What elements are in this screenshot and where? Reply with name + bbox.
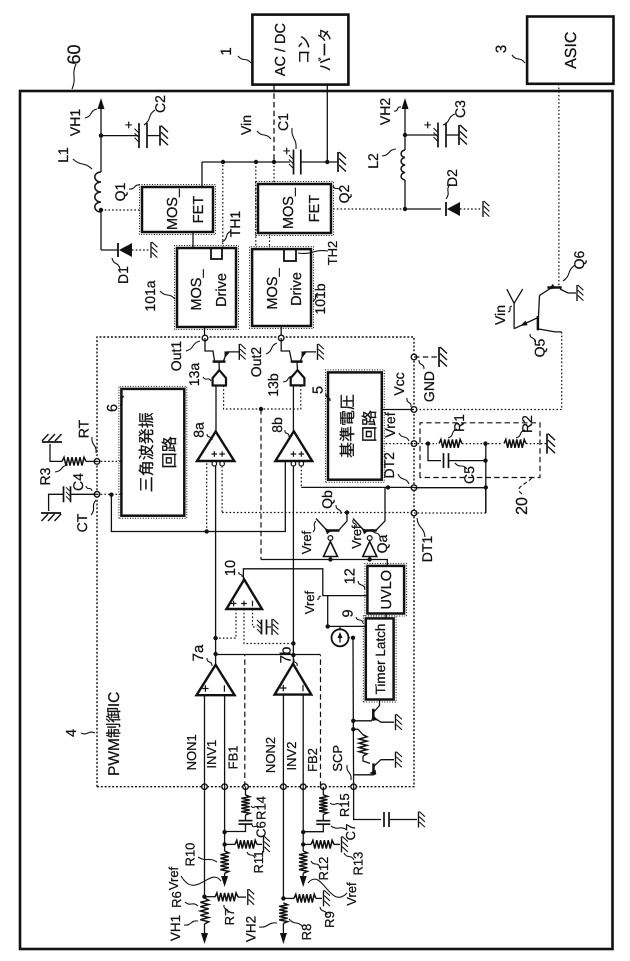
svg-text:R15: R15 [337,793,352,817]
MOSFET box Q2 [256,182,334,236]
pin Vref [411,441,417,447]
resistor R10 [220,851,228,873]
svg-text:+: + [420,121,435,129]
svg-text:13b: 13b [265,373,281,397]
wire Vref dashed distribution [260,409,262,560]
wire SCP cap to ground [389,819,417,821]
wire Q1 to driver 101a [192,232,194,248]
node INV2/C7 [301,830,305,834]
arrow to Vref (INV2 divider) [300,876,307,887]
svg-text:FET: FET [307,195,323,223]
svg-text:PWM制御IC: PWM制御IC [105,692,123,776]
node comparator input a [213,636,217,640]
svg-text:基準電圧: 基準電圧 [339,394,357,458]
pin DT2 [411,485,417,491]
wire R2 to ground (dotted) [526,443,546,445]
node Vref dash junction [259,407,263,411]
wire comparator 10 output [243,569,367,596]
ground of C2 [160,126,168,146]
svg-text:コン: コン [297,35,313,64]
svg-text:3: 3 [493,45,510,53]
ground of D1 [151,242,157,258]
node comparator input b [291,641,295,645]
svg-text:Q2: Q2 [336,184,352,203]
svg-text:Q5: Q5 [531,338,547,357]
capacitor C3 [437,123,439,148]
ground of Q6 [577,285,583,301]
wire driver 101b output to Out2 pin [280,326,282,338]
wire C2 branch [101,135,138,137]
wire ASIC control line (dotted) [558,84,560,286]
svg-text:VH1: VH1 [67,109,83,136]
wire INV2 external [302,787,304,851]
svg-text:SCP: SCP [330,745,345,772]
wire comparator input c to cap (dotted) [253,609,258,627]
arrow VH2 output terminal [402,98,409,109]
wire driver 101a output to Out1 pin [204,327,206,338]
svg-text:MOS_: MOS_ [189,269,205,311]
pin Out2 [278,335,284,341]
svg-text:CT: CT [74,513,90,532]
wire C2 to ground [147,135,160,137]
pin FB2 [321,784,327,790]
capacitor C2 [138,123,140,148]
ground of transistor B [396,752,402,768]
node SCP transistor A base [351,719,355,723]
svg-text:101b: 101b [312,283,328,314]
current source 9 circle [332,629,349,646]
svg-text:13a: 13a [186,363,202,387]
svg-text:Vin: Vin [492,305,508,325]
svg-text:Vcc: Vcc [391,372,407,395]
node SCP resistor tap [351,727,355,731]
node INV1/R11 [222,842,226,846]
driver arrow symbol 13a [213,370,226,385]
AC/DC converter box 1 [252,15,348,85]
MOS drive box 101b [250,247,314,329]
wire joining 7a/7b outputs [216,654,321,656]
svg-text:Drive: Drive [289,272,305,306]
svg-text:C6: C6 [254,821,269,838]
wire Q6 to Q5 base [539,295,540,316]
ground of SCP cap [419,812,425,828]
ASIC box 3 [527,17,613,84]
svg-text:NON2: NON2 [263,737,278,773]
transistor A of SCP latch [353,720,372,722]
wire Vin bus vertical [202,161,290,163]
svg-text:TH2: TH2 [325,241,340,266]
wire INV2 to 7b [302,695,304,787]
svg-text:MOS_: MOS_ [265,268,281,310]
main comparator 10 [226,580,262,610]
wire 13a lower lead to Vref dash node (dotted) [224,386,259,410]
svg-text:C1: C1 [275,113,291,131]
svg-text:INV2: INV2 [284,742,299,771]
resistor R11 [225,843,235,845]
ground of RT resistor [42,434,62,442]
svg-text:L2: L2 [365,153,381,169]
wire 13b to 8b output [292,385,294,431]
ground of R11 [264,836,270,852]
pin CT [94,491,100,497]
wire Q2 to driver 101b (dotted) [269,233,271,249]
wire switch node to MOSFET Q2 (dotted) [332,208,405,210]
op-amp 7b [275,664,312,695]
svg-text:回路: 回路 [161,436,179,468]
svg-text:C3: C3 [452,100,468,118]
pin DT1 [411,510,417,516]
wire Vref rail to UVLO [261,560,387,566]
svg-text:R14: R14 [254,796,269,820]
wire DT1 internal line (dotted) [222,512,414,514]
svg-text:MOS_: MOS_ [165,188,181,230]
wire cap to ground [267,626,272,628]
svg-text:VH2: VH2 [377,98,393,125]
svg-text:Timer Latch: Timer Latch [373,624,388,695]
arrow to Vref (INV1 divider) [221,876,228,887]
node NON1/R7 [202,895,206,899]
reference voltage box 5 [326,370,385,482]
pin SCP [351,784,357,790]
svg-text:INV1: INV1 [204,740,219,769]
wire CT pin into oscillator (dotted) [97,493,121,495]
wire D1 branch [101,249,118,251]
svg-text:4: 4 [64,729,80,737]
wire INV1 external [224,787,226,851]
svg-text:RT: RT [76,419,92,438]
resistor in SCP latch [353,729,363,734]
pin TH2 notch on driver 101b [284,249,296,261]
pin GND [411,354,417,360]
capacitor C6 [245,815,247,821]
node R1/R2/DT2 [483,441,487,445]
svg-text:Qb: Qb [319,490,335,509]
node NON2/R9 [281,896,285,900]
resistor R7 [205,896,216,898]
ground at GND pin [439,347,447,367]
svg-text:D2: D2 [444,169,460,187]
pin INV2 [300,784,306,790]
resistor R12 [299,851,307,873]
node sawtooth to 8a [205,529,209,533]
wire 7a output rail to comparator [215,465,217,665]
svg-text:R2: R2 [519,415,535,433]
resistor R15 on FB2 [322,787,324,795]
svg-text:C5: C5 [461,466,477,484]
wire DT2 node line [485,444,487,488]
pin TH1 notch on driver 101a [211,248,222,259]
svg-text:D1: D1 [115,266,131,284]
MOS drive box 101a [175,246,239,330]
svg-text:10: 10 [223,560,239,576]
svg-text:Out2: Out2 [248,347,264,378]
wire reference to Vcc pin [382,409,414,411]
svg-text:Vref: Vref [299,530,314,554]
wire DT2 pin external [414,487,486,489]
wire DT1 to DT2 node [485,487,487,513]
node switch SW2 [403,207,407,211]
svg-text:回路: 回路 [361,410,379,442]
svg-text:101a: 101a [142,280,158,311]
node C5 top tap [426,441,430,445]
arrow VH1 output terminal [98,98,105,109]
svg-text:UVLO: UVLO [379,570,395,610]
svg-text:C7: C7 [343,824,358,841]
transistor B of SCP latch [372,763,375,775]
resistor R6 [200,898,208,924]
node Qa diode tap [368,557,372,561]
arrow to VH1 sense [201,933,208,944]
svg-text:9: 9 [341,609,357,617]
ground of R9 [324,890,330,906]
wire CT sawtooth line to comparators [111,462,285,532]
resistor R14 on FB1 [245,787,247,795]
svg-text:VH1: VH1 [168,915,183,941]
svg-text:VH2: VH2 [244,916,259,942]
pin NON2 [281,784,287,790]
svg-text:6: 6 [105,404,121,412]
node Qb to DT1 [345,510,349,514]
svg-text:R6: R6 [169,891,184,908]
ground at comparator cap [272,619,278,635]
svg-text:Qa: Qa [374,534,390,553]
svg-text:8b: 8b [269,417,285,433]
timer latch box 9 [363,616,396,702]
svg-text:L1: L1 [55,147,71,163]
wire FB2 feedback (dashed) [320,655,322,787]
wire R1 to R2 [462,443,502,445]
svg-text:Vref: Vref [166,866,181,890]
wire DT1 pin external (dotted) [414,512,486,514]
wire GND pin to ground (dashed) [414,356,437,358]
svg-text:R3: R3 [37,467,53,485]
transistor of output 13b [281,338,291,361]
wire sawtooth to 8a input (dotted) [206,461,208,532]
diode D1 [117,243,119,257]
wire switch node to MOSFET Q1 (dotted) [101,209,142,211]
node VH1/C2 [99,133,103,137]
wire VH1 output rail [100,212,102,250]
diode D2 [445,202,447,216]
resistor R9 [283,897,294,899]
capacitor C5 [428,444,441,461]
svg-text:R11: R11 [251,851,266,874]
wire VH2 output rail [404,180,406,209]
resistor R2 [504,439,526,447]
svg-text:60: 60 [64,44,84,64]
node 7a output [213,652,217,656]
ground of R7 [248,889,254,905]
svg-text:R1: R1 [451,414,467,432]
wire Q5 emitter to Vin symbol [513,303,515,328]
UVLO box 12 [365,563,407,616]
svg-text:AC / DC: AC / DC [273,23,289,76]
svg-text:+: + [279,147,294,155]
svg-text:R7: R7 [222,909,237,926]
svg-text:TH1: TH1 [227,211,243,238]
svg-text:DT2: DT2 [381,452,397,479]
svg-text:GND: GND [421,371,437,402]
svg-text:5: 5 [311,386,327,394]
antenna symbol Vin supply [507,289,523,303]
svg-text:バータ: バータ [318,28,334,72]
svg-text:Drive: Drive [214,273,230,307]
node bus Drive101b [254,160,258,164]
svg-text:R10: R10 [182,843,197,867]
ground of R13 [342,836,348,852]
wire current source stub [339,626,341,629]
dashed box 20 [420,423,540,478]
node C5 bottom [483,458,487,462]
capacitor C1 [293,150,295,175]
node VH2/C3 [403,133,407,137]
node SCP internal [351,636,355,640]
wire RT pin into oscillator (dotted) [97,460,121,462]
wire SCP external [354,787,381,820]
wire 7b output rail to comparator [292,465,294,664]
svg-text:三角波発振: 三角波発振 [138,412,156,492]
wire DT2 internal line [301,486,414,488]
svg-text:DT1: DT1 [419,536,435,563]
driver arrow symbol 13b [291,370,305,385]
svg-text:ASIC: ASIC [563,32,580,69]
svg-text:C4: C4 [70,473,86,491]
wire 8b DT input to DT2 line (dotted) [300,466,302,487]
wire 8a DT input to DT1 line (dotted) [221,466,223,513]
wire UVLO to timer latch [385,614,387,619]
svg-text:R8: R8 [299,924,314,941]
wire D1 anode to ground (dotted) [132,249,151,251]
ground of transistor A [396,714,402,730]
pin RT [94,459,100,465]
transistor Q5 [537,316,540,330]
wire D2 branch [405,208,441,210]
pwm comparator 8a [197,432,234,462]
node 7b output [291,653,295,657]
svg-text:20: 20 [514,497,531,515]
triangle wave oscillator box 6 [119,386,187,518]
svg-text:R12: R12 [316,857,331,881]
pin FB1 [243,784,249,790]
wire Vin bus to driver 101b (dotted) [255,162,257,249]
pin Vcc [411,407,417,413]
wire Vref node to timer latch [328,596,366,627]
pin NON1 [202,784,208,790]
svg-text:R9: R9 [322,911,337,928]
svg-text:MOS_: MOS_ [281,187,297,229]
transistor Q6 [547,286,561,289]
node DT2 external [484,485,488,489]
node bus return [325,160,329,164]
svg-text:Vref: Vref [302,590,317,614]
resistor R13 [303,843,311,845]
ground at Vin bus bottom [338,152,346,172]
capacitor C4 on CT [71,493,97,495]
svg-text:8a: 8a [190,422,206,438]
wire D2 anode to ground (dotted) [460,208,482,210]
inductor L2 [401,150,405,180]
capacitor at comparator input [261,620,263,635]
transistor of output 13a [205,338,215,361]
inductor L1 [95,172,101,212]
wire 13b base [296,362,299,371]
wire comparator input a (dotted) [216,609,236,638]
MOSFET box Q1 [140,185,216,235]
svg-text:FET: FET [191,196,207,224]
pin INV1 [222,784,228,790]
node INV1/C6 [222,830,226,834]
svg-text:12: 12 [343,568,359,584]
resistor R1 [439,439,462,447]
wire INV1 to 7a [224,695,226,787]
node bus TH1 [221,160,225,164]
wire comparator input b (dotted) [244,609,293,644]
wire Vin dashed to Q2 (dotted) [273,162,275,184]
wire reference to Vref pin (dotted) [382,443,414,445]
op-amp 7a [197,665,235,695]
transistor Qa [363,529,377,532]
node INV2/R13 [301,842,305,846]
wire bus below C1 to ground [301,161,338,163]
diode of Qa [367,536,372,541]
capacitor on SCP pin [383,812,385,827]
wire TH1 to Vin bus (dotted) [222,162,224,248]
svg-text:Vref: Vref [349,525,364,549]
ground of C3 [459,125,467,145]
wire 13a to 8a output [215,386,217,432]
wire C3 to ground [446,134,459,136]
node Qb diode tap [328,557,332,561]
resistor RT external R-T [86,460,97,462]
wire SCP internal line [352,638,355,787]
svg-text:7a: 7a [190,644,207,661]
node switch SW1 [99,208,103,212]
ground of R2 [547,434,555,454]
node Vref current source [326,624,330,628]
wire 13a base [218,362,220,371]
wire Vcc feed from Q5 collector (dotted) [561,332,563,410]
wire Vin bus to Q1 [201,162,203,187]
capacitor C7 [322,814,324,820]
node bus Vin-dashed [272,160,276,164]
svg-text:R13: R13 [350,852,365,876]
node DT2 Qa junction [386,485,390,489]
wire AC/DC return stub [326,85,328,162]
svg-text:Q1: Q1 [112,182,128,201]
wire NON2 to 7b [282,695,284,787]
node CT branch [109,493,113,497]
svg-text:1: 1 [218,47,235,55]
arrow to VH2 sense [280,933,287,944]
wire NON1 to 7a [204,695,206,787]
pin Out1 [202,335,208,341]
ground of C4 [41,513,61,521]
svg-text:Vin: Vin [238,115,254,135]
wire 13b lower lead to Vref dash node (dotted) [263,385,301,409]
wire Vref pin external (dotted) [414,443,437,445]
wire C3 branch [405,134,437,136]
svg-text:FB1: FB1 [226,745,241,769]
svg-text:FB2: FB2 [305,748,320,772]
diode of Qb [328,536,333,541]
svg-text:+: + [121,121,136,129]
svg-text:NON1: NON1 [184,734,199,770]
svg-text:Out1: Out1 [168,341,184,372]
PWM control IC box 4 [97,337,414,787]
wire FB1 feedback (dashed) [244,655,246,787]
wire NON2 external [282,787,284,899]
wire Vin dashed from AC/DC converter [273,85,275,162]
